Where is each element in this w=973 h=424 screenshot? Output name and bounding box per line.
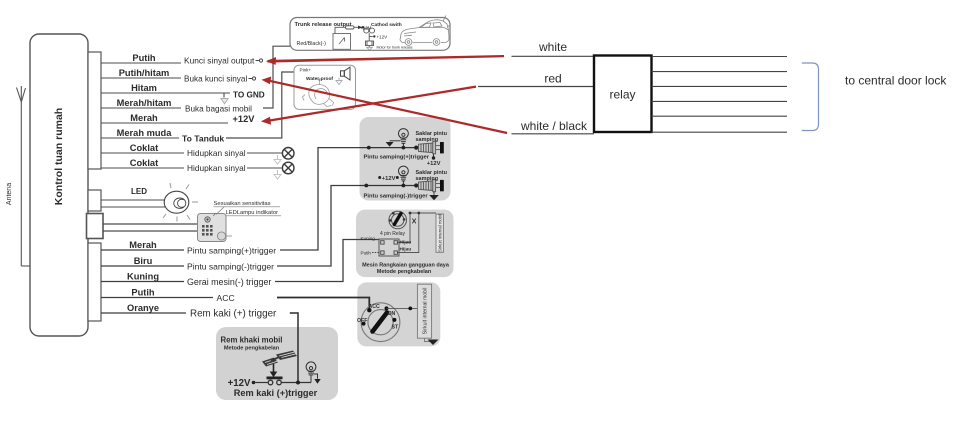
trunk car clipart bbox=[400, 16, 450, 46]
box B ignition cylinder bbox=[389, 211, 407, 229]
relay K1 bbox=[594, 56, 652, 133]
svg-text:Buka kunci sinyal: Buka kunci sinyal bbox=[184, 75, 247, 84]
svg-text:+12V: +12V bbox=[233, 114, 256, 124]
wire Coklat 2 (hidupkan sinyal) bbox=[101, 167, 282, 169]
key icon 1 bbox=[256, 59, 263, 62]
svg-text:Sirkuit internal mobil: Sirkuit internal mobil bbox=[423, 288, 429, 335]
svg-text:Rem khaki mobil: Rem khaki mobil bbox=[221, 336, 283, 345]
gray module box C: ignition switch box bbox=[357, 282, 440, 346]
trunk internal relay bbox=[333, 34, 351, 50]
svg-text:Cathod swith: Cathod swith bbox=[371, 22, 402, 28]
svg-text:Hidupkan sinyal: Hidupkan sinyal bbox=[187, 148, 246, 158]
svg-text:samping: samping bbox=[416, 137, 439, 143]
water-proof siren box bbox=[294, 65, 356, 109]
svg-text:Pintu samping(+)trigger: Pintu samping(+)trigger bbox=[187, 246, 276, 256]
trunk motor bbox=[366, 41, 374, 47]
svg-text:Merah muda: Merah muda bbox=[117, 128, 173, 138]
svg-text:ON: ON bbox=[388, 311, 396, 317]
svg-text:+12V: +12V bbox=[377, 34, 388, 39]
svg-text:ST: ST bbox=[392, 325, 399, 331]
LED rays bbox=[163, 183, 198, 222]
svg-text:Merah/hitam: Merah/hitam bbox=[117, 98, 172, 108]
box B 4-pin relay bbox=[379, 239, 399, 256]
box B green wires to ignition and car circuit bbox=[398, 213, 437, 253]
svg-text:Pintu samping(-)trigger: Pintu samping(-)trigger bbox=[187, 262, 274, 272]
LED indicator symbol bbox=[164, 191, 189, 213]
svg-text:ACC: ACC bbox=[369, 304, 380, 310]
red link C: red wire to +12V bbox=[261, 86, 476, 125]
svg-text:Pintu samping(-)trigger: Pintu samping(-)trigger bbox=[364, 194, 429, 200]
sensor wires bbox=[103, 224, 198, 231]
box C terminals bbox=[367, 308, 371, 312]
svg-text:Red/Black(-): Red/Black(-) bbox=[297, 41, 327, 47]
svg-text:Metode pengkabelan: Metode pengkabelan bbox=[224, 346, 280, 352]
svg-text:Pink+: Pink+ bbox=[300, 68, 312, 73]
ground below switch box A bottom bbox=[433, 192, 435, 195]
speaker symbol bbox=[341, 67, 351, 80]
box C car internal circuit rect bbox=[417, 284, 431, 338]
svg-text:+12V: +12V bbox=[382, 176, 396, 182]
svg-text:Metode pengkabelan: Metode pengkabelan bbox=[377, 269, 432, 275]
lamp L2 (circle-X) bbox=[282, 162, 294, 174]
wire Putih/hitam (buka kunci sinyal) bbox=[101, 77, 181, 79]
bracket for door lock bundle bbox=[802, 63, 819, 131]
connector block J3 (sensor) bbox=[87, 214, 104, 239]
svg-text:Putih: Putih bbox=[132, 53, 156, 63]
bulb lamp box A top bbox=[399, 129, 409, 148]
svg-text:Sesuaikan sensitivitas: Sesuaikan sensitivitas bbox=[214, 201, 271, 207]
wire Merah (+12V) bbox=[101, 122, 228, 124]
svg-text:white: white bbox=[538, 40, 567, 54]
wire to trunk release box bbox=[263, 46, 337, 108]
red link A: white wire to Kunci sinyal output bbox=[266, 55, 504, 65]
+12V below switch bbox=[433, 154, 435, 157]
gray module box B: Mesin Rangkaian gangguan daya bbox=[356, 210, 454, 278]
door pin switch box A top bbox=[414, 146, 418, 150]
svg-text:4 pin Relay: 4 pin Relay bbox=[380, 231, 406, 237]
svg-text:Coklat: Coklat bbox=[130, 158, 158, 168]
svg-text:Hitam: Hitam bbox=[131, 83, 157, 93]
svg-text:Kuning: Kuning bbox=[127, 272, 159, 282]
svg-text:+12V: +12V bbox=[427, 161, 441, 167]
wire Merah (pintu samping + trigger) bbox=[101, 249, 184, 251]
svg-text:LEDLampu indikator: LEDLampu indikator bbox=[226, 210, 279, 216]
box C ignition switch bbox=[361, 303, 400, 342]
svg-text:OFF: OFF bbox=[357, 318, 367, 324]
trunk circuit: fuse and +12V bbox=[335, 26, 358, 34]
brake pedal drawing bbox=[262, 351, 297, 367]
wire Merah muda (To Tanduk, horn) bbox=[101, 137, 179, 139]
svg-text:Pintu samping(+)trigger: Pintu samping(+)trigger bbox=[364, 155, 430, 161]
wire riser to brake box bbox=[290, 313, 298, 383]
svg-text:Kontrol tuan rumah: Kontrol tuan rumah bbox=[53, 108, 65, 205]
connector block J4 (bottom 5 wires) bbox=[88, 243, 101, 321]
wire Kuning (gerai mesin - trigger) bbox=[101, 281, 184, 283]
svg-text:LED: LED bbox=[131, 187, 147, 196]
box A BOTTOM: wire into switch bbox=[360, 185, 416, 187]
wire Oranye (rem kaki + trigger) bbox=[101, 312, 186, 314]
svg-text:white / black: white / black bbox=[520, 119, 588, 133]
svg-text:Mesin Rangkaian gangguan daya: Mesin Rangkaian gangguan daya bbox=[362, 263, 450, 269]
connector block J1 (top 8 wires) bbox=[88, 52, 101, 169]
trunk release output box bbox=[290, 18, 450, 51]
svg-text:Antena: Antena bbox=[6, 183, 13, 205]
gray ground mark under lamp L1 bbox=[274, 155, 281, 164]
svg-text:Hijau: Hijau bbox=[400, 247, 412, 253]
svg-text:TO GND: TO GND bbox=[233, 91, 265, 100]
brake lamp bulb bbox=[306, 362, 317, 383]
svg-text:Sirkuit internal mobil: Sirkuit internal mobil bbox=[438, 214, 443, 252]
gray module box A: Saklar pintu samping bbox=[360, 117, 451, 201]
bulb lamp box A bottom bbox=[399, 166, 409, 185]
svg-text:to central door lock: to central door lock bbox=[845, 74, 947, 88]
down arrow bbox=[273, 364, 275, 372]
wire riser to box A top section bbox=[280, 148, 360, 250]
wire from switch to lamp junction bbox=[282, 382, 311, 384]
connector block J2 (LED) bbox=[88, 190, 101, 211]
wire Merah/hitam (buka bagasi mobil) bbox=[101, 107, 181, 109]
svg-text:Buka bagasi mobil: Buka bagasi mobil bbox=[185, 105, 252, 114]
ground symbol box A top bbox=[390, 140, 401, 142]
shock sensor module bbox=[198, 213, 233, 242]
wire to siren box bbox=[226, 72, 341, 138]
svg-text:Merah: Merah bbox=[130, 113, 158, 123]
wire Hitam (TO GND) bbox=[101, 93, 230, 98]
svg-text:Rem kaki (+)trigger: Rem kaki (+)trigger bbox=[234, 388, 318, 398]
svg-text:Hijau: Hijau bbox=[400, 240, 412, 246]
svg-text:red: red bbox=[544, 72, 561, 86]
door pin switch box A bottom bbox=[414, 183, 418, 187]
svg-text:To Tanduk: To Tanduk bbox=[182, 134, 224, 144]
svg-text:Oranye: Oranye bbox=[127, 303, 159, 313]
box C ground bbox=[425, 338, 431, 341]
svg-text:Kunci sinyal output: Kunci sinyal output bbox=[184, 56, 255, 66]
svg-text:Putih: Putih bbox=[131, 288, 155, 298]
gray ground mark under lamp L2 bbox=[274, 170, 281, 179]
red link B: white/black wire to Buka kunci sinyal bbox=[262, 77, 508, 135]
svg-text:Motor for trunk release: Motor for trunk release bbox=[377, 45, 413, 49]
wire riser to box B relay bbox=[275, 240, 379, 282]
svg-text:Kuning: Kuning bbox=[361, 236, 376, 241]
svg-text:Hidupkan sinyal: Hidupkan sinyal bbox=[187, 163, 246, 173]
svg-text:Putih/hitam: Putih/hitam bbox=[119, 68, 170, 78]
svg-text:Putih: Putih bbox=[361, 251, 372, 256]
wire Putih ACC bbox=[101, 297, 213, 299]
ground arrow (gray) for Hitam bbox=[221, 99, 228, 104]
wire Putih (kunci sinyal output) bbox=[101, 62, 181, 64]
wire riser to box A bottom section bbox=[277, 186, 360, 267]
X mark bbox=[412, 219, 416, 224]
box A TOP: wire into switch bbox=[360, 147, 416, 149]
svg-text:ACC: ACC bbox=[217, 293, 235, 303]
gray module box D: Rem khaki mobil bbox=[216, 327, 338, 400]
box B car internal circuit rect bbox=[436, 214, 443, 252]
wire Biru (pintu samping - trigger) bbox=[101, 265, 184, 267]
siren drawing bbox=[303, 79, 334, 106]
relay output wires (6) to door lock bbox=[652, 57, 788, 133]
svg-text:Coklat: Coklat bbox=[130, 143, 158, 153]
gray ground under speaker bbox=[336, 78, 342, 85]
svg-text:relay: relay bbox=[609, 88, 635, 102]
ground arrow brake bbox=[314, 379, 320, 384]
svg-text:Rem kaki (+) trigger: Rem kaki (+) trigger bbox=[190, 309, 277, 320]
box C wire to car circuit bbox=[387, 307, 418, 309]
svg-text:Biru: Biru bbox=[134, 256, 153, 266]
control unit box U1 Kontrol tuan rumah bbox=[30, 34, 88, 336]
svg-text:samping: samping bbox=[416, 176, 439, 182]
wire Coklat 1 (hidupkan sinyal) bbox=[101, 152, 282, 154]
LED wires bbox=[101, 200, 165, 207]
svg-text:Merah: Merah bbox=[129, 240, 157, 250]
brake switch bbox=[267, 377, 283, 380]
antenna bbox=[17, 86, 31, 266]
key icon 2 bbox=[249, 77, 256, 80]
svg-text:Gerai mesin(-) trigger: Gerai mesin(-) trigger bbox=[187, 277, 271, 287]
lamp L1 (circle-X) bbox=[282, 148, 294, 160]
ACC wire to ignition box bbox=[277, 298, 369, 310]
